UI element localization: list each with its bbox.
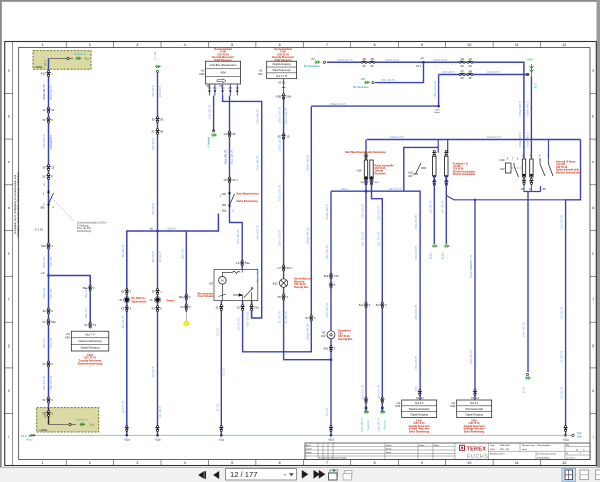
svg-text:X3 I 3: X3 I 3 — [278, 81, 285, 85]
svg-text:X1: X1 — [42, 118, 46, 122]
box Nut 6.2 — [402, 400, 437, 418]
svg-text:15w 4/0,75: 15w 4/0,75 — [230, 149, 234, 164]
connector pair C4 — [46, 174, 50, 180]
svg-text:5: 5 — [231, 461, 233, 465]
relay K19 — [506, 163, 519, 177]
junction bus -011c — [219, 426, 223, 432]
yellow marker — [184, 321, 189, 326]
svg-text:40: 40 — [363, 64, 366, 68]
svg-text:31: 31 — [216, 305, 219, 309]
svg-text:1: 1 — [41, 461, 43, 465]
svg-text:31a: 31a — [85, 57, 90, 61]
svg-text:TEREX: TEREX — [467, 447, 487, 453]
junction J3 — [330, 358, 333, 361]
svg-text:30: 30 — [43, 165, 46, 169]
svg-text:Nach Maschinennr. siehe Bemerk: Nach Maschinennr. siehe Bemerkung — [345, 152, 386, 154]
svg-text:Wascherbehaelter: Wascherbehaelter — [409, 407, 430, 411]
svg-text:-L1: -L1 — [42, 108, 46, 112]
svg-text:50a 4/1: 50a 4/1 — [180, 249, 184, 259]
relay K16 top pin — [365, 140, 367, 161]
junction J5 — [365, 190, 368, 193]
svg-text:15baf 4/0,5: 15baf 4/0,5 — [487, 135, 501, 139]
svg-text:d: d — [592, 206, 594, 210]
svg-text:-F8: -F8 — [468, 69, 473, 73]
svg-text:51e 1/0,75: 51e 1/0,75 — [360, 232, 364, 247]
svg-text:15i 1/0,75: 15i 1/0,75 — [428, 200, 432, 214]
svg-text:6: 6 — [279, 461, 281, 465]
svg-text:X1: X1 — [42, 362, 46, 366]
svg-text:X2: X2 — [151, 129, 155, 133]
svg-text:-L7: -L7 — [277, 266, 281, 270]
toolbar background — [0, 467, 600, 482]
svg-text:-F7: -F7 — [460, 69, 465, 73]
svg-text:d: d — [8, 206, 10, 210]
svg-text:X1: X1 — [42, 398, 46, 402]
svg-text:15k 1/0,75: 15k 1/0,75 — [469, 350, 473, 364]
svg-text:10: 10 — [467, 43, 471, 47]
highlight box top-left +005a — [33, 51, 91, 70]
svg-text:A2M: A2M — [199, 73, 204, 76]
svg-text:-K16: -K16 — [356, 170, 362, 173]
svg-text:Kl.15: Kl.15 — [428, 252, 432, 259]
svg-text:X1 1: X1 1 — [43, 60, 47, 66]
svg-text:e: e — [592, 252, 594, 256]
connector pair C8 — [46, 361, 50, 367]
svg-text:15: 15 — [286, 134, 289, 138]
ground bus 31 — [29, 434, 566, 436]
svg-text:f: f — [593, 297, 594, 301]
svg-text:h: h — [592, 389, 594, 393]
svg-text:53 1/0,75: 53 1/0,75 — [237, 317, 241, 330]
svg-text:53e 1/0,75: 53e 1/0,75 — [246, 312, 250, 327]
svg-text:D-Nr.:: D-Nr.: — [490, 448, 496, 451]
wire W1a top jog inside highlight box — [49, 58, 67, 60]
svg-text:15bat 4/0,25: 15bat 4/0,25 — [305, 227, 309, 244]
svg-text:X2 1: X2 1 — [416, 65, 422, 68]
svg-text:50a: 50a — [324, 274, 329, 278]
svg-text:15baf 4/0,5: 15baf 4/0,5 — [385, 58, 399, 62]
TEREX logo — [459, 445, 465, 451]
svg-text:31 1/0,75: 31 1/0,75 — [121, 400, 125, 413]
svg-text:6: 6 — [279, 43, 281, 47]
switch S141 key switch — [48, 190, 54, 207]
junction bus -011a — [125, 426, 129, 432]
svg-text:-L5: -L5 — [223, 178, 227, 182]
svg-text:Bezeichnung: Bezeichnung — [522, 445, 535, 447]
svg-text:Siehe Bemerkung: Siehe Bemerkung — [237, 200, 259, 203]
svg-text:Bearb.: Bearb. — [386, 447, 392, 450]
svg-text:15baf 4/0,5: 15baf 4/0,5 — [390, 135, 404, 139]
svg-text:15bf 4/0,5: 15bf 4/0,5 — [487, 70, 500, 74]
junction J2 — [156, 230, 159, 233]
svg-text:15bf 4/0,5: 15bf 4/0,5 — [442, 70, 455, 74]
relay internal contacts — [219, 269, 254, 301]
junction bus -011d — [329, 426, 333, 432]
svg-text:15h 1/0,75: 15h 1/0,75 — [388, 187, 402, 191]
svg-text:15m 1/0,75: 15m 1/0,75 — [522, 322, 526, 337]
junction bus -011b — [155, 426, 159, 432]
pin label above Nut 6.2 — [418, 390, 422, 396]
svg-text:Kabelplan verwenden! Techn. Ae: Kabelplan verwenden! Techn. Aenderungen … — [16, 172, 20, 237]
relay pin top C16 — [240, 260, 244, 266]
svg-text:Aend.: Aend. — [306, 444, 311, 447]
connector pair C15 — [184, 294, 188, 300]
connector pair on lamp branch — [125, 289, 129, 295]
svg-text:Datum: Datum — [306, 451, 312, 454]
plug terminal P5 — [526, 373, 528, 375]
svg-text:30f: 30f — [311, 57, 315, 61]
svg-text:Digital Eingang: Digital Eingang — [465, 413, 483, 417]
btn last page — [314, 470, 321, 479]
svg-text:53: 53 — [237, 305, 240, 309]
connector pair C3 — [46, 165, 50, 171]
svg-text:86: 86 — [160, 129, 163, 133]
fuse pair F7 F8 — [459, 73, 465, 76]
svg-text:12: 12 — [562, 461, 566, 465]
svg-text:15: 15 — [51, 165, 54, 169]
svg-text:15h 1/0,75: 15h 1/0,75 — [414, 246, 418, 261]
bus left arrow — [30, 434, 35, 436]
wire H2b feeder upper right — [439, 74, 530, 76]
svg-text:Siehe Bemerkung: Siehe Bemerkung — [464, 430, 485, 433]
svg-text:50e 4/1: 50e 4/1 — [42, 338, 46, 348]
svg-text:X3: X3 — [180, 305, 184, 309]
svg-text:Bestellnummer: Bestellnummer — [490, 453, 505, 456]
svg-text:X3: X3 — [121, 306, 125, 310]
svg-text:X4: X4 — [84, 323, 88, 327]
svg-text:30 4/2,5: 30 4/2,5 — [158, 251, 162, 262]
svg-text:30: 30 — [232, 132, 235, 136]
svg-text:C02 45 46: C02 45 46 — [453, 168, 464, 171]
svg-text:15w 4/0,75: 15w 4/0,75 — [236, 229, 240, 244]
motor M symbol — [219, 277, 227, 285]
wire W13 horn line — [330, 191, 332, 435]
btn next page — [302, 470, 309, 479]
column ruler — [41, 43, 566, 465]
clamp G1 — [76, 57, 82, 60]
svg-text:Nut 6.2: Nut 6.2 — [415, 401, 424, 405]
svg-text:50a: 50a — [222, 210, 227, 213]
svg-text:Fahrgestell: Fahrgestell — [74, 53, 86, 56]
top connector P2 — [156, 70, 158, 72]
relay box M wiper — [214, 269, 258, 300]
svg-text:-011c: -011c — [218, 439, 225, 442]
svg-text:K45: K45 — [395, 404, 400, 408]
svg-text:83: 83 — [160, 117, 163, 121]
wire H4b frame — [404, 147, 438, 190]
svg-text:Zuendg Res.: Zuendg Res. — [338, 338, 353, 341]
svg-text:24V: 24V — [321, 334, 326, 338]
svg-text:f: f — [8, 297, 9, 301]
lamp E1 — [279, 279, 287, 287]
wire H4 — [367, 139, 581, 141]
svg-text:e: e — [8, 252, 10, 256]
svg-text:-L2: -L2 — [420, 57, 424, 60]
svg-text:Rahm: Rahm — [27, 439, 33, 441]
CAN box pins — [208, 84, 210, 96]
svg-text:c: c — [592, 160, 594, 164]
svg-text:30: 30 — [51, 108, 54, 112]
svg-text:58 1/0,75: 58 1/0,75 — [121, 315, 125, 328]
svg-text:Wischer Kombiaufar: Wischer Kombiaufar — [453, 174, 475, 176]
svg-text:X4 I 13: X4 I 13 — [471, 397, 480, 400]
viewer left border — [0, 0, 2, 467]
svg-text:Relais Intervallfkt: Relais Intervallfkt — [375, 165, 394, 168]
svg-text:a: a — [592, 69, 594, 73]
svg-text:05b: 05b — [577, 435, 582, 439]
svg-text:X1: X1 — [42, 411, 46, 415]
svg-text:51f: 51f — [376, 303, 380, 307]
svg-text:MHL350D: MHL350D — [500, 445, 510, 447]
bus right terminal — [566, 434, 572, 436]
svg-text:50a: 50a — [51, 320, 56, 324]
svg-text:15h 1/0,75: 15h 1/0,75 — [325, 303, 329, 318]
icon layout two — [580, 470, 589, 480]
svg-text:RC 460/2+4+: RC 460/2+4+ — [132, 297, 147, 300]
svg-text:Drehrichtung: Drehrichtung — [77, 230, 92, 233]
svg-text:50a: 50a — [83, 286, 88, 290]
svg-text:15bat 4/0,25: 15bat 4/0,25 — [305, 323, 309, 340]
svg-text:50e 4/1: 50e 4/1 — [49, 337, 53, 347]
svg-text:3: 3 — [136, 461, 138, 465]
svg-text:Serie: Serie — [522, 448, 528, 451]
svg-text:C02 45-46: C02 45-46 — [375, 167, 386, 170]
svg-text:C 1 81: C 1 81 — [35, 228, 43, 232]
svg-text:b: b — [8, 114, 10, 118]
svg-text:8: 8 — [373, 461, 375, 465]
clamp G3 — [530, 64, 534, 76]
svg-text:53e: 53e — [254, 305, 259, 309]
svg-text:58f 4/0,75: 58f 4/0,75 — [49, 376, 53, 390]
svg-text:Fahrgestell: Fahrgestell — [76, 419, 88, 422]
fuse pair F5 F6 — [361, 61, 367, 64]
svg-text:15bat 4/0,25: 15bat 4/0,25 — [305, 154, 309, 171]
svg-text:FUCHS: FUCHS — [467, 454, 489, 460]
K19 mechanical dash link — [512, 167, 522, 169]
svg-text:K46: K46 — [450, 404, 455, 408]
svg-text:Type: Type — [490, 445, 496, 447]
svg-text:51e 1/0,75: 51e 1/0,75 — [360, 385, 364, 400]
svg-text:1: 1 — [41, 43, 43, 47]
row letter bands — [8, 69, 595, 439]
connector pair C5 — [46, 243, 50, 249]
connector pair C14a — [155, 117, 159, 123]
viewer right scrollbar strip — [597, 0, 600, 467]
icon copy page 2 — [343, 471, 352, 481]
svg-text:4: 4 — [184, 43, 186, 47]
connector pair C7 — [46, 319, 50, 325]
svg-text:Zeichnungsnummer: Zeichnungsnummer — [537, 453, 557, 456]
svg-text:-L8: -L8 — [149, 227, 153, 230]
svg-text:50a: 50a — [41, 244, 46, 248]
svg-text:-F5: -F5 — [362, 57, 367, 61]
svg-text:4: 4 — [184, 461, 186, 465]
svg-text:53: 53 — [306, 316, 309, 320]
relay K20 top pin to H4 — [548, 140, 550, 159]
svg-text:31 1/1: 31 1/1 — [325, 407, 329, 416]
svg-text:11: 11 — [515, 461, 519, 465]
connector pair C6 — [46, 308, 50, 314]
svg-text:15bat 1/0,75: 15bat 1/0,75 — [469, 261, 473, 278]
svg-text:X6 2: X6 2 — [286, 266, 292, 270]
svg-text:8C-Steckdose: 8C-Steckdose — [353, 86, 369, 89]
svg-text:b: b — [592, 114, 594, 118]
btn first page — [198, 471, 204, 479]
connector pair C1 — [46, 107, 50, 113]
wire W2 branch to K30 box — [49, 276, 91, 323]
svg-text:25: 25 — [469, 76, 472, 80]
svg-text:50a 4/1: 50a 4/1 — [167, 227, 177, 231]
svg-text:30f 4/2,5: 30f 4/2,5 — [151, 138, 155, 150]
svg-text:-F19: -F19 — [40, 71, 46, 75]
svg-text:Name: Name — [386, 452, 391, 454]
svg-text:31af 1/0,75: 31af 1/0,75 — [376, 418, 380, 432]
svg-text:3: 3 — [136, 43, 138, 47]
junction J4 — [422, 61, 425, 64]
svg-text:9: 9 — [421, 461, 423, 465]
wire right V565 — [566, 140, 581, 436]
wire W1b bottom jog in highlight box — [47, 408, 50, 425]
wire H6 — [331, 191, 420, 400]
icon copy page 1 — [329, 470, 338, 480]
svg-text:X6: X6 — [278, 295, 282, 299]
svg-text:30f: 30f — [361, 77, 365, 81]
svg-text:58f 4/0,75: 58f 4/0,75 — [42, 376, 46, 390]
svg-text:15w 4/0,75: 15w 4/0,75 — [208, 104, 212, 119]
plug terminal P1 — [211, 134, 217, 137]
wire W9 pin to ground bus — [220, 301, 222, 436]
svg-text:Bearbeitung Zeichnung Freigabe: Bearbeitung Zeichnung Freigabe — [319, 457, 347, 460]
connector X0 top — [67, 57, 69, 59]
svg-text:15baf 4/0,5: 15baf 4/0,5 — [518, 132, 522, 147]
svg-text:9: 9 — [421, 43, 423, 47]
junction J-H3 — [437, 105, 440, 108]
svg-text:-011d: -011d — [328, 439, 335, 442]
svg-text:A2M: A2M — [220, 71, 225, 75]
svg-text:30f 4/2,5: 30f 4/2,5 — [151, 85, 155, 97]
svg-text:Digital Eingang: Digital Eingang — [81, 346, 100, 350]
icon layout single (active) — [562, 468, 576, 481]
svg-text:g: g — [592, 343, 594, 347]
svg-text:58: 58 — [121, 289, 124, 293]
green plug terminals W15 W16 — [364, 397, 368, 403]
svg-text:15baf 4/0,5: 15baf 4/0,5 — [433, 58, 447, 62]
svg-text:31 1/1: 31 1/1 — [215, 403, 219, 412]
svg-text:10: 10 — [467, 461, 471, 465]
svg-text:-011b: -011b — [155, 439, 162, 442]
svg-text:-E15: -E15 — [272, 282, 278, 286]
svg-text:15w1 1/0,75: 15w1 1/0,75 — [278, 185, 282, 202]
fuse pair F3 F4 — [459, 61, 465, 64]
clamp G2 — [80, 423, 86, 426]
svg-text:40: 40 — [371, 64, 374, 68]
svg-text:Loten: Loten — [434, 111, 440, 114]
svg-text:989 . 461: 989 . 461 — [500, 449, 510, 451]
svg-text:58af 4/0,75: 58af 4/0,75 — [42, 84, 46, 99]
connector pair C12 — [227, 131, 231, 137]
connector pair C18 — [329, 273, 333, 279]
connector pair C14 — [155, 289, 159, 295]
suppressor device D2 — [155, 298, 160, 303]
pin label above Nut 5.3 — [473, 390, 477, 396]
svg-text:51e 1/0,75: 51e 1/0,75 — [376, 385, 380, 400]
svg-text:15bf 4/0,75: 15bf 4/0,75 — [381, 78, 395, 82]
svg-text:31a: 31a — [90, 423, 95, 427]
svg-text:31 1/1: 31 1/1 — [215, 327, 219, 336]
svg-text:30f 4/2,5: 30f 4/2,5 — [158, 85, 162, 97]
svg-text:X2: X2 — [42, 174, 46, 178]
svg-text:-L4: -L4 — [223, 132, 227, 136]
connector pair C17 — [281, 265, 285, 271]
svg-text:15w 4/0,75: 15w 4/0,75 — [256, 267, 260, 282]
svg-text:8: 8 — [373, 43, 375, 47]
switch S13 wiper switch — [222, 192, 235, 207]
svg-text:15bat 4/0,5: 15bat 4/0,5 — [325, 204, 329, 219]
svg-text:Reserviert: Reserviert — [375, 172, 386, 175]
svg-text:31f 4/2,5: 31f 4/2,5 — [158, 406, 162, 418]
connector pair C14b — [155, 129, 159, 135]
svg-text:Nut 7.4: Nut 7.4 — [86, 333, 95, 337]
svg-text:A-Steckd.: A-Steckd. — [207, 136, 211, 148]
connector pair C19 — [281, 94, 285, 100]
svg-text:M: M — [221, 279, 224, 283]
svg-text:Kl.15: Kl.15 — [522, 386, 526, 393]
svg-text:31 1/0,75: 31 1/0,75 — [560, 350, 564, 363]
svg-text:15w 4/0,75: 15w 4/0,75 — [256, 225, 260, 240]
svg-text:15baf 4/0,5: 15baf 4/0,5 — [525, 132, 529, 147]
svg-text:51e 1/0,75: 51e 1/0,75 — [360, 204, 364, 219]
svg-text:2: 2 — [89, 461, 91, 465]
wire H5 — [446, 196, 565, 200]
svg-text:8C-Steckdose: 8C-Steckdose — [304, 65, 320, 68]
svg-text:50a 1/1: 50a 1/1 — [84, 308, 88, 318]
svg-text:31 1/0,75: 31 1/0,75 — [560, 306, 564, 319]
svg-text:+005a: +005a — [35, 65, 44, 69]
svg-text:K30: K30 — [65, 335, 70, 339]
connector pair C11 above K30 box — [88, 322, 92, 328]
wire V528 long drop — [527, 192, 529, 373]
svg-text:Wischer Intervall whlb: Wischer Intervall whlb — [556, 171, 582, 174]
svg-text:Kl.15: Kl.15 — [440, 252, 444, 259]
relay K17 contact — [413, 163, 426, 174]
svg-text:51_F_05: 51_F_05 — [21, 435, 31, 438]
svg-text:15n 1/0,75: 15n 1/0,75 — [560, 215, 564, 230]
svg-text:X4 I 12: X4 I 12 — [416, 397, 425, 400]
svg-text:-L9: -L9 — [236, 261, 240, 265]
wire V531 — [530, 76, 532, 158]
svg-text:+15b: +15b — [435, 109, 441, 111]
svg-text:Digital Eingang: Digital Eingang — [410, 413, 428, 417]
svg-text:30A: 30A — [286, 94, 291, 98]
svg-text:-011a: -011a — [124, 439, 131, 442]
svg-text:X10: X10 — [334, 274, 339, 278]
svg-text:12 / 177: 12 / 177 — [230, 470, 257, 479]
svg-text:24V: 24V — [408, 175, 413, 178]
relay K18 coil A — [437, 140, 439, 153]
svg-text:Nut 5.3: Nut 5.3 — [470, 401, 479, 405]
svg-text:50a: 50a — [40, 207, 45, 210]
svg-text:X10: X10 — [323, 346, 328, 350]
svg-text:a: a — [8, 69, 10, 73]
svg-text:15bat 4/0,25: 15bat 4/0,25 — [330, 102, 346, 106]
svg-text:Wascherpumpe: Wascherpumpe — [273, 68, 292, 72]
svg-text:(Datenverarbeitung): (Datenverarbeitung) — [78, 362, 103, 366]
connector X0b — [69, 423, 71, 425]
H1 corner connector clamp — [526, 73, 528, 75]
svg-text:Ltd Stb: Ltd Stb — [453, 165, 462, 168]
relay K20 coils — [522, 159, 533, 177]
page number box — [226, 469, 297, 480]
